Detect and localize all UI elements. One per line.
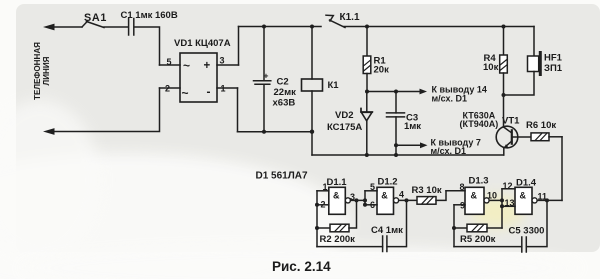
transistor VT1 КТ630А xyxy=(460,95,521,155)
svg-text:R5 200к: R5 200к xyxy=(460,234,496,245)
svg-text:&: & xyxy=(520,191,527,201)
capacitor C1 xyxy=(121,10,178,35)
node: to pin 7 of D1 xyxy=(396,137,481,156)
svg-text:10к: 10к xyxy=(483,62,499,73)
relay coil K1 xyxy=(302,27,340,156)
resistor R3 xyxy=(412,185,447,204)
gate D1.4 xyxy=(515,177,537,214)
wire: bridge plus output up to top rail xyxy=(238,27,240,66)
wire: D1.1 input tie xyxy=(316,191,318,247)
pin 2 of VD1 xyxy=(160,84,181,94)
junction xyxy=(363,203,367,207)
pin 3 of VD1 xyxy=(217,56,239,66)
junction xyxy=(394,143,398,147)
pin 6 of D1.2 xyxy=(365,200,377,210)
svg-text:м/сх. D1: м/сх. D1 xyxy=(431,146,467,156)
junction xyxy=(365,25,369,29)
svg-text:К1.1: К1.1 xyxy=(340,12,360,23)
junction xyxy=(365,153,369,157)
svg-text:2: 2 xyxy=(165,84,170,94)
svg-text:R2 200к: R2 200к xyxy=(320,234,356,245)
svg-text:12: 12 xyxy=(503,181,513,191)
sounder HF1 ЗП1 xyxy=(504,27,563,96)
gate D1.1 xyxy=(327,177,351,214)
junction xyxy=(315,203,319,207)
wire: top supply rail (right part) xyxy=(366,26,534,28)
svg-text:&: & xyxy=(381,191,388,201)
svg-text:2: 2 xyxy=(321,199,326,209)
svg-text:С4 1мк: С4 1мк xyxy=(371,225,403,236)
switch SA1 xyxy=(82,12,107,28)
svg-text:1: 1 xyxy=(221,84,226,94)
pin 10 of D1.3 xyxy=(487,190,502,200)
svg-text:С2: С2 xyxy=(277,77,289,88)
svg-text:9: 9 xyxy=(460,201,465,211)
pin 13 of D1.4 xyxy=(502,198,515,208)
svg-text:х63В: х63В xyxy=(273,98,296,109)
junction xyxy=(394,90,398,94)
junction xyxy=(365,90,369,94)
svg-text:D1.1: D1.1 xyxy=(327,177,348,188)
capacitor C3 xyxy=(387,92,422,156)
svg-text:Рис. 2.14: Рис. 2.14 xyxy=(272,259,331,274)
wire xyxy=(104,26,127,28)
svg-text:С1 1мк 160В: С1 1мк 160В xyxy=(121,10,178,21)
junction xyxy=(502,25,506,29)
gate D1.3 xyxy=(465,175,489,214)
svg-text:&: & xyxy=(333,191,340,201)
wire: R6 to D1.4 output node xyxy=(561,137,563,201)
svg-text:D1.3: D1.3 xyxy=(469,175,489,186)
svg-text:13: 13 xyxy=(505,198,515,208)
wire: D1.2 input tie xyxy=(364,191,366,205)
svg-text:м/сх. D1: м/сх. D1 xyxy=(432,93,468,103)
pin 1 of D1.1 xyxy=(317,182,329,192)
capacitor C5 xyxy=(454,200,547,252)
svg-text:3: 3 xyxy=(350,192,355,202)
junction xyxy=(363,198,367,202)
svg-text:VT1: VT1 xyxy=(502,116,520,127)
svg-text:8: 8 xyxy=(460,182,465,192)
svg-text:4: 4 xyxy=(399,189,404,199)
svg-text:(КТ940А): (КТ940А) xyxy=(460,119,499,129)
wire: top supply rail (left part, to K1.1) xyxy=(239,26,322,28)
svg-text:R6 10к: R6 10к xyxy=(526,120,556,131)
node: to pin 14 of D1 xyxy=(367,84,487,103)
svg-text:VD1 КЦ407А: VD1 КЦ407А xyxy=(174,38,231,49)
junction xyxy=(500,204,504,208)
svg-text:~: ~ xyxy=(183,59,190,73)
resistor R4 xyxy=(483,27,507,96)
svg-text:1мк: 1мк xyxy=(404,121,421,132)
pin 8 of D1.3 xyxy=(446,182,465,192)
svg-text:+: + xyxy=(204,60,211,72)
wire: bottom ground rail xyxy=(312,154,504,156)
pin 3 of D1.1 xyxy=(350,192,365,202)
gate D1.2 xyxy=(377,176,399,214)
svg-text:R3 10к: R3 10к xyxy=(412,185,442,196)
wire: lower telephone line lead with arrow xyxy=(43,88,160,135)
pin 5 of D1.2 xyxy=(365,182,377,192)
wire: bridge minus line xyxy=(238,131,313,133)
junction xyxy=(502,93,506,97)
svg-text:D1.4: D1.4 xyxy=(516,177,537,188)
svg-text:С5 3300: С5 3300 xyxy=(509,226,545,237)
junction xyxy=(500,198,504,202)
junction xyxy=(452,226,456,230)
svg-text:D1.2: D1.2 xyxy=(378,176,398,187)
svg-text:+: + xyxy=(264,71,269,81)
node: telephone line xyxy=(33,42,51,100)
svg-text:VD2: VD2 xyxy=(335,110,353,121)
svg-text:5: 5 xyxy=(370,182,375,192)
zener diode VD2 xyxy=(327,92,372,156)
junction xyxy=(355,198,359,202)
svg-text:20к: 20к xyxy=(374,65,390,76)
rectifier bridge VD1 КЦ407А xyxy=(174,38,231,102)
junction xyxy=(405,198,409,202)
wire: upper telephone line lead with arrow xyxy=(43,24,82,31)
svg-text:К1: К1 xyxy=(328,80,340,91)
svg-text:ЗП1: ЗП1 xyxy=(544,63,563,74)
pin 11 of D1.4 xyxy=(537,191,562,201)
wire: pin 9 drop to R5/C5 xyxy=(453,205,455,247)
pin 1 of VD1 xyxy=(217,84,238,94)
svg-text:SA1: SA1 xyxy=(84,12,107,24)
svg-text:6: 6 xyxy=(370,200,375,210)
pin 9 of D1.3 xyxy=(454,201,465,211)
svg-text:5: 5 xyxy=(167,57,172,67)
wire: D1.4 input tie / R5 riser xyxy=(501,189,503,228)
wire: bridge minus output down to bottom rail xyxy=(237,88,239,132)
svg-text:-: - xyxy=(207,85,211,99)
pin 12 of D1.4 xyxy=(502,181,515,191)
svg-text:&: & xyxy=(471,191,478,201)
pin 4 of D1.2 xyxy=(399,189,417,200)
resistor R2 xyxy=(317,200,357,244)
svg-text:3: 3 xyxy=(220,56,225,66)
relay contact K1.1 xyxy=(326,12,366,28)
svg-text:10: 10 xyxy=(487,190,497,200)
svg-text:1: 1 xyxy=(323,182,328,192)
junction xyxy=(394,153,398,157)
svg-text:КС175А: КС175А xyxy=(327,122,362,133)
junction xyxy=(545,198,549,202)
junction xyxy=(310,25,314,29)
svg-text:22мк: 22мк xyxy=(274,87,297,98)
junction xyxy=(262,25,266,29)
pin 2 of D1.1 xyxy=(317,199,329,209)
resistor R5 xyxy=(454,224,502,245)
capacitor C2 xyxy=(254,27,297,132)
svg-text:D1 561ЛА7: D1 561ЛА7 xyxy=(256,171,308,182)
pin 5 of VD1 xyxy=(160,57,181,67)
svg-text:~: ~ xyxy=(182,86,189,100)
resistor R1 xyxy=(363,27,389,92)
junction xyxy=(262,130,266,134)
junction xyxy=(315,226,319,230)
resistor R6 xyxy=(512,120,562,141)
junction xyxy=(310,130,314,134)
capacitor C4 xyxy=(317,200,407,251)
wire xyxy=(135,27,160,65)
